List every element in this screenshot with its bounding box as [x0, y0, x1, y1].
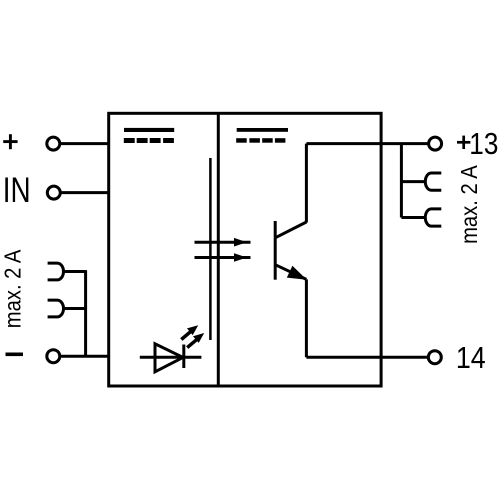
label + (plus terminal)	[3, 134, 17, 149]
label minus terminal	[6, 353, 24, 357]
DC symbol left (solid bar)	[124, 128, 174, 132]
wire left bus	[84, 270, 87, 356]
transistor Q1 collector diagonal	[275, 222, 306, 238]
wire IN terminal to box	[60, 191, 108, 194]
LED light arrow 1	[181, 325, 198, 339]
wire right bus	[400, 144, 403, 218]
wire F1 tap	[63, 270, 86, 273]
terminal circle +13	[429, 137, 442, 150]
terminal circle minus	[47, 350, 60, 363]
svg-text:14: 14	[456, 341, 486, 375]
DC symbol left (dashed bar)	[124, 138, 174, 143]
svg-text:max. 2 A: max. 2 A	[455, 165, 482, 244]
module outline box U1	[109, 113, 381, 386]
fuse contact F4 right lower	[425, 209, 441, 226]
DC symbol right (dashed bar)	[236, 138, 285, 143]
transistor Q1 emitter diagonal	[275, 265, 306, 280]
coupling arrow 2	[195, 253, 251, 262]
wire emitter down	[305, 279, 308, 357]
terminal circle IN	[47, 186, 60, 199]
wire F3 tap	[401, 180, 426, 183]
wire collector to +13	[306, 142, 428, 145]
wire minus terminal to box	[60, 355, 109, 358]
LED D1 wire	[140, 356, 202, 359]
fuse contact F2 left lower	[48, 300, 64, 317]
transistor Q1 emitter arrowhead	[287, 266, 307, 280]
terminal circle 14	[428, 351, 441, 364]
svg-text:IN: IN	[3, 170, 31, 210]
transistor Q1 base bar	[274, 221, 277, 280]
coupling arrow 1	[195, 238, 251, 247]
LED D1 triangle	[155, 344, 183, 372]
wire emitter to 14	[306, 356, 428, 359]
terminal circle plus	[47, 137, 60, 150]
svg-text:max. 2 A: max. 2 A	[0, 249, 26, 328]
section divider	[217, 113, 220, 386]
fuse contact F3 right upper	[425, 173, 441, 190]
wire F4 tap	[401, 216, 426, 219]
wire F2 tap	[63, 307, 86, 310]
svg-text:13: 13	[469, 127, 498, 161]
label plus of +13	[457, 136, 470, 149]
fuse contact F1 left upper	[48, 263, 64, 280]
isolation barrier line	[209, 158, 212, 340]
wire collector up	[305, 144, 308, 223]
wire plus terminal to box	[60, 142, 109, 145]
LED light arrow 2	[187, 333, 204, 348]
DC symbol right (solid bar)	[237, 128, 288, 132]
LED D1 cathode bar	[182, 345, 185, 369]
